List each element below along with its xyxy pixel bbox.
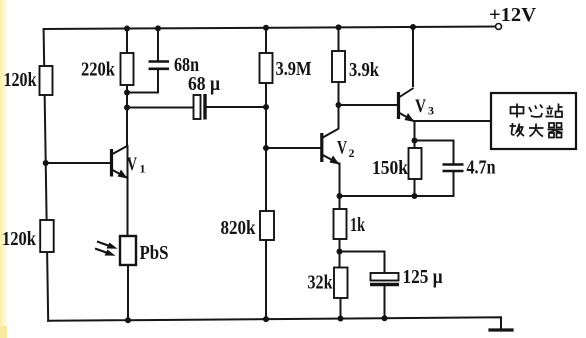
wire V3 base bbox=[339, 104, 398, 106]
wire V2 emitter down bbox=[339, 164, 341, 197]
svg-text:2: 2 bbox=[349, 146, 355, 160]
svg-text:3.9M: 3.9M bbox=[276, 58, 312, 80]
resistor 3.9M bbox=[260, 53, 273, 83]
wire V1 collector bbox=[127, 146, 129, 177]
wire V3 emitter down bbox=[414, 121, 416, 148]
char xin 心 bbox=[529, 105, 543, 117]
svg-text:125 μ: 125 μ bbox=[403, 266, 444, 288]
wire 4.7n bottom bbox=[453, 172, 455, 196]
wire emitter bus bbox=[340, 195, 454, 197]
resistor 3.9k bbox=[332, 51, 345, 82]
transistor V3 bbox=[399, 88, 415, 122]
wire 125u branch bbox=[340, 252, 385, 274]
svg-text:820k: 820k bbox=[221, 217, 257, 239]
photoresistor PbS bbox=[120, 236, 136, 265]
svg-text:4.7n: 4.7n bbox=[467, 157, 496, 179]
svg-text:V: V bbox=[415, 96, 426, 117]
wire 4.7n top bbox=[415, 141, 454, 164]
wire PbS to ground bbox=[127, 265, 129, 320]
wire V3 collector bbox=[412, 27, 414, 86]
char zhan 站 bbox=[546, 104, 563, 118]
wire 68u coupling bbox=[127, 107, 194, 109]
wire V2 base bbox=[266, 147, 321, 149]
char fang 放 bbox=[510, 123, 525, 137]
label zhongxinzhan (中心站) hand-drawn glyphs bbox=[511, 104, 563, 118]
wire V1 base bbox=[46, 162, 110, 164]
wire top supply rail bbox=[44, 27, 497, 30]
PbS light arrows bbox=[95, 242, 118, 256]
+12V terminal bbox=[496, 24, 502, 30]
resistor 120k upper bbox=[40, 66, 53, 95]
wire V1 emitter to PbS bbox=[127, 177, 129, 236]
wire 220k branch bbox=[126, 29, 128, 54]
capacitor 4.7n bbox=[443, 165, 464, 172]
svg-text:68 μ: 68 μ bbox=[188, 73, 221, 95]
svg-text:3.9k: 3.9k bbox=[349, 59, 380, 81]
svg-text:120k: 120k bbox=[4, 69, 38, 91]
svg-text:220k: 220k bbox=[81, 59, 116, 81]
svg-text:V: V bbox=[337, 138, 347, 159]
resistor 32k bbox=[334, 268, 348, 299]
char da 大 bbox=[529, 124, 544, 137]
char qi 器 bbox=[548, 123, 564, 138]
label fangdaqi (放大器) hand-drawn glyphs bbox=[510, 123, 564, 138]
wire V2 collector bbox=[338, 105, 340, 128]
svg-text:1k: 1k bbox=[350, 214, 366, 236]
transistor V2 bbox=[322, 129, 340, 165]
svg-text:150k: 150k bbox=[372, 157, 409, 179]
svg-text:32k: 32k bbox=[308, 272, 334, 294]
resistor 820k bbox=[260, 211, 274, 240]
wire 32k to ground bbox=[340, 298, 342, 319]
wire 820k to ground bbox=[265, 240, 267, 319]
wire 68n branch bbox=[157, 28, 159, 60]
wire 150k bottom bbox=[414, 179, 416, 196]
wire V3 emitter to box bbox=[415, 120, 492, 122]
capacitor 68n bbox=[149, 62, 170, 69]
capacitor 68u electrolytic bbox=[194, 94, 206, 120]
char zhong 中 bbox=[511, 104, 524, 118]
wire 1k branch bbox=[339, 196, 341, 209]
ground bbox=[490, 328, 512, 331]
wire left vertical rail bbox=[44, 29, 49, 321]
resistor 120k lower bbox=[40, 220, 54, 252]
svg-text:3: 3 bbox=[428, 104, 434, 118]
resistor 1k bbox=[334, 209, 347, 239]
box central station amplifier bbox=[491, 93, 576, 149]
svg-text:PbS: PbS bbox=[140, 242, 169, 264]
wire 3.9k branch bbox=[338, 27, 340, 51]
transistor V1 bbox=[112, 146, 129, 179]
resistor 150k bbox=[409, 148, 422, 179]
svg-text:+12V: +12V bbox=[489, 4, 537, 26]
svg-text:120k: 120k bbox=[2, 228, 37, 250]
wire 3.9M branch bbox=[265, 28, 267, 53]
svg-text:1: 1 bbox=[140, 162, 146, 176]
svg-text:V: V bbox=[127, 154, 137, 175]
capacitor 125u electrolytic bbox=[370, 273, 399, 285]
wire bottom ground rail bbox=[48, 317, 501, 329]
resistor 220k bbox=[121, 53, 134, 85]
